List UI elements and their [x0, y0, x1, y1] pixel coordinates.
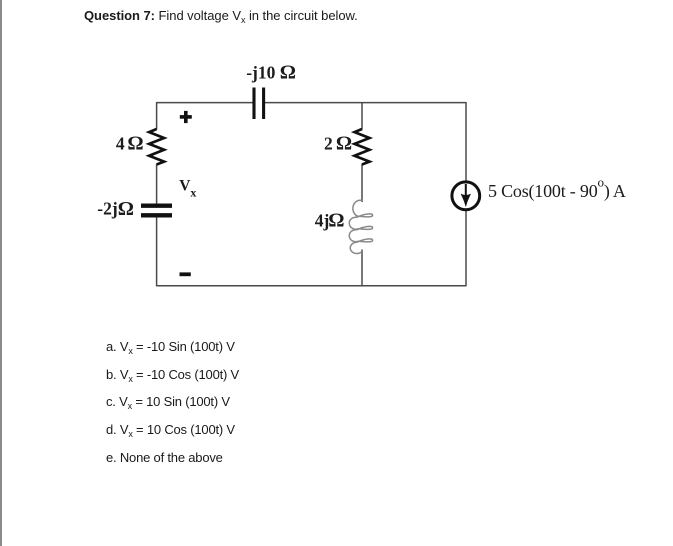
capacitor C2 -2johm plates — [141, 206, 172, 216]
title — [84, 8, 358, 23]
wire top-left to capacitor C1 — [157, 102, 253, 104]
svg-text:4: 4 — [116, 133, 125, 153]
wire right branch lower — [465, 211, 467, 286]
wire left branch lower — [156, 217, 158, 286]
wire middle branch lower — [361, 250, 363, 286]
svg-text:x: x — [190, 185, 196, 199]
wire middle branch mid — [361, 164, 363, 202]
svg-text:V: V — [179, 177, 191, 194]
wire left branch upper — [156, 102, 158, 130]
svg-text:Ω: Ω — [280, 62, 296, 84]
svg-text:4j: 4j — [315, 211, 330, 231]
answers list — [106, 333, 239, 472]
minus sign Vx polarity — [180, 272, 191, 276]
wire middle branch upper — [361, 103, 363, 130]
left page border — [0, 0, 2, 546]
wire capacitor C1 to top-right corner — [265, 102, 466, 104]
resistor R2 2ohm zigzag — [355, 129, 370, 165]
svg-text:Ω: Ω — [336, 133, 352, 155]
wire right branch upper — [465, 102, 467, 181]
wire left branch middle — [156, 164, 158, 204]
resistor R1 4ohm zigzag — [149, 129, 164, 165]
svg-text:5 Cos(100t - 90o) A: 5 Cos(100t - 90o) A — [488, 175, 626, 202]
wire bottom — [157, 285, 466, 287]
svg-text:-j10: -j10 — [246, 63, 275, 83]
current source I1 circle — [452, 182, 480, 210]
current source I1 arrow — [461, 184, 471, 207]
capacitor C1 -j10ohm plates — [254, 88, 264, 120]
svg-text:Ω: Ω — [328, 210, 344, 232]
plus sign Vx polarity — [180, 111, 192, 123]
svg-text:Ω: Ω — [118, 198, 134, 220]
inductor L1 4johm coil — [349, 200, 372, 253]
svg-text:2: 2 — [324, 133, 333, 153]
svg-text:-2j: -2j — [97, 199, 117, 219]
svg-text:Ω: Ω — [127, 133, 143, 155]
